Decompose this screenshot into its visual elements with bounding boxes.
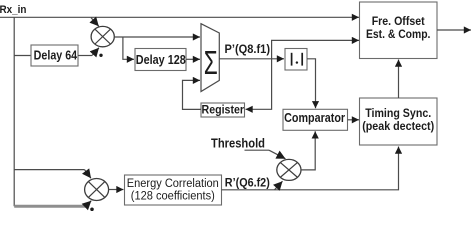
svg-text:Timing Sync.: Timing Sync. — [365, 108, 431, 120]
wire sigma output to abs block — [219, 58, 284, 60]
wire top rail — [0, 16, 359, 18]
svg-text:Threshold: Threshold — [211, 135, 265, 150]
svg-text:R’(Q6.f2): R’(Q6.f2) — [225, 175, 270, 189]
wire M3 output to Energy Correlation — [109, 189, 124, 191]
wire bottom conjugate path to M3 — [14, 201, 91, 207]
wire Delay 128 output to summation — [186, 58, 200, 60]
conjugate asterisk at multiplier M1 — [99, 54, 102, 57]
comparator block — [283, 109, 348, 130]
svg-text:Register: Register — [202, 103, 245, 117]
wire branch down to Delay 128 — [123, 37, 134, 59]
wire rail branch to multiplier M3 top input — [14, 170, 91, 179]
wire Comparator output to Timing Sync — [348, 119, 360, 121]
abs block |.| — [285, 49, 307, 71]
multiplier M1 — [91, 26, 114, 46]
svg-text:Est. & Comp.: Est. & Comp. — [366, 27, 431, 41]
multiplier M3 — [85, 179, 109, 201]
wire into Delay 64 — [14, 55, 31, 57]
wire branch down to Register — [246, 59, 272, 110]
wire M1 output to summation — [114, 36, 200, 38]
svg-text:Comparator: Comparator — [284, 110, 345, 125]
wire rail drop into multiplier M1 — [91, 18, 99, 27]
conjugate asterisk at multiplier M3 — [90, 208, 94, 212]
svg-text:Energy Correlation: Energy Correlation — [127, 178, 219, 190]
svg-text:Delay 128: Delay 128 — [136, 52, 186, 67]
wire left vertical bus — [13, 17, 15, 206]
wire Register feedback to sigma — [183, 80, 202, 109]
svg-text:(128 coefficients): (128 coefficients) — [131, 190, 215, 202]
multiplier M2 — [277, 159, 301, 180]
svg-text:Fre. Offset: Fre. Offset — [372, 14, 425, 28]
delay block Delay 128 — [135, 49, 186, 71]
frequency offset block — [360, 2, 438, 59]
wire abs output down to Comparator — [307, 59, 316, 109]
wire branch up into multiplier M2 lower input — [275, 181, 283, 190]
svg-text:P’(Q8.f1): P’(Q8.f1) — [225, 42, 271, 56]
energy correlation block — [125, 175, 222, 205]
wire Fre. Offset output — [437, 29, 471, 31]
delay block Delay 64 — [31, 45, 78, 66]
wire M2 output up to Comparator — [301, 131, 315, 170]
timing sync block — [360, 98, 438, 145]
wire Threshold into multiplier M2 — [245, 150, 286, 159]
wire Energy Correlation output to Timing Sync — [222, 147, 399, 190]
summation block sigma — [201, 24, 219, 92]
wire branch up to Fre. Offset block — [272, 40, 359, 58]
svg-text:Delay 64: Delay 64 — [34, 48, 78, 63]
wire Timing Sync to Fre. Offset — [398, 60, 400, 99]
svg-text:Σ: Σ — [204, 44, 218, 81]
wire Delay 64 output to multiplier (conjugate) — [78, 48, 99, 56]
register block — [201, 103, 245, 117]
svg-text:(peak dectect): (peak dectect) — [362, 121, 434, 133]
svg-text:Rx_in: Rx_in — [0, 4, 27, 16]
